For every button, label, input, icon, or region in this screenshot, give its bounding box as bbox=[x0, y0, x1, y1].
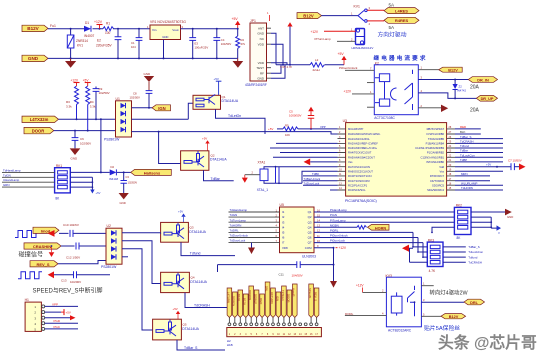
wire U2 out to Q4 bbox=[122, 241, 161, 284]
svg-text:TdBar_S: TdBar_S bbox=[184, 346, 198, 350]
capacitor E3 bbox=[189, 29, 208, 59]
capacitor C8 bbox=[130, 91, 153, 108]
svg-text:RC2/P1A/CCP1: RC2/P1A/CCP1 bbox=[348, 183, 368, 187]
svg-text:I2: I2 bbox=[282, 215, 285, 219]
wire Q4 output TdCRASH bbox=[185, 293, 231, 308]
svg-text:R3: R3 bbox=[66, 100, 70, 104]
svg-text:ACTURN: ACTURN bbox=[270, 292, 274, 304]
svg-text:XTAL_1: XTAL_1 bbox=[257, 188, 269, 192]
wire H1 pin1 VPP bbox=[45, 302, 78, 306]
wire uln out4 net MGBN bbox=[314, 226, 357, 228]
svg-text:47k: 47k bbox=[241, 42, 246, 46]
svg-text:SPeedS: SPeedS bbox=[308, 288, 312, 298]
wire coil pin2 bbox=[337, 40, 356, 42]
svg-text:IN4007: IN4007 bbox=[84, 34, 95, 38]
port R4RES bbox=[384, 17, 419, 23]
wire port stub bbox=[277, 318, 279, 323]
gnd arrow SPEED bbox=[48, 271, 54, 278]
gnd arrow Vss pin8 bbox=[304, 159, 338, 166]
svg-text:XTA1: XTA1 bbox=[258, 161, 266, 165]
resistor network RK2 bbox=[454, 204, 471, 241]
wire uln in2 bbox=[229, 216, 280, 218]
svg-text:IGN: IGN bbox=[158, 106, 165, 111]
svg-text:10K: 10K bbox=[285, 133, 290, 137]
port L4TURN (vertical) bbox=[226, 288, 231, 318]
port Imod bbox=[33, 227, 59, 233]
svg-text:PiDoorUnlock: PiDoorUnlock bbox=[330, 234, 348, 238]
svg-text:RA4/T0CKI/C1OUT: RA4/T0CKI/C1OUT bbox=[348, 151, 372, 155]
power +12V bbox=[336, 246, 347, 250]
svg-text:+12V: +12V bbox=[311, 30, 319, 34]
capacitor C7 bbox=[508, 159, 522, 171]
svg-text:H1B: H1B bbox=[227, 343, 233, 347]
wire relay common bbox=[322, 15, 359, 17]
svg-text:ZNR314: ZNR314 bbox=[76, 39, 88, 43]
svg-text:SDA/SDI/RC4: SDA/SDI/RC4 bbox=[427, 188, 444, 192]
capacitor C12 bbox=[66, 243, 80, 260]
svg-text:CRASHIN: CRASHIN bbox=[33, 244, 51, 249]
wire rk1 row1 bbox=[2, 171, 55, 173]
inductor L2 bbox=[310, 58, 324, 72]
wire opto out DOOR to chip bbox=[132, 132, 338, 134]
wire U2 out to Q5 bbox=[122, 249, 153, 330]
capacitor E2 bbox=[96, 29, 121, 59]
svg-text:TdLockCon: TdLockCon bbox=[460, 154, 475, 158]
resistor R5 mclr bbox=[277, 124, 338, 137]
ground bbox=[65, 58, 76, 67]
svg-text:100uF/25V: 100uF/25V bbox=[195, 45, 209, 49]
svg-text:PiHandLamp: PiHandLamp bbox=[330, 208, 347, 212]
svg-text:B12V: B12V bbox=[448, 69, 458, 73]
net MRN bbox=[455, 172, 490, 176]
svg-text:TdCRASH: TdCRASH bbox=[468, 260, 482, 264]
svg-text:Fu1: Fu1 bbox=[50, 24, 56, 28]
wire to Hallsens bbox=[117, 171, 131, 173]
optocoupler U1 bbox=[104, 97, 132, 142]
svg-text:WLURLAMP: WLURLAMP bbox=[461, 181, 477, 185]
pin stubs JP1 bbox=[267, 28, 272, 78]
wire port stub bbox=[316, 318, 318, 323]
svg-text:C11: C11 bbox=[279, 272, 285, 276]
wire GND rail bbox=[48, 57, 238, 59]
svg-text:GND: GND bbox=[162, 35, 168, 39]
svg-text:DR_UP: DR_UP bbox=[481, 97, 494, 101]
wire H1 pin4 PGD bbox=[45, 319, 78, 323]
diode D1 bbox=[84, 21, 95, 38]
svg-text:H1: H1 bbox=[25, 298, 29, 302]
svg-text:B12V: B12V bbox=[303, 13, 314, 18]
port CRASHIN bbox=[24, 243, 61, 249]
wire H1 pin5 PGC bbox=[45, 325, 78, 329]
svg-text:102/50V: 102/50V bbox=[130, 96, 141, 100]
wire uln in6 bbox=[229, 237, 280, 239]
connector H2 body bbox=[227, 328, 322, 337]
net TdBar_S bbox=[443, 246, 466, 248]
svg-text:VDD: VDD bbox=[258, 42, 265, 46]
svg-text:B12V: B12V bbox=[243, 298, 247, 305]
wire uln in5 bbox=[229, 231, 280, 233]
power +12V K2 bbox=[344, 90, 375, 94]
svg-text:C10 102/6V: C10 102/6V bbox=[63, 223, 79, 227]
svg-text:D1: D1 bbox=[85, 21, 89, 25]
svg-text:HORN: HORN bbox=[375, 226, 386, 230]
wire uln in7 bbox=[229, 242, 280, 244]
svg-text:U5: U5 bbox=[280, 203, 284, 207]
svg-text:IN4742: IN4742 bbox=[457, 89, 466, 93]
svg-text:DTA114UA: DTA114UA bbox=[190, 280, 207, 284]
capacitor C11 bbox=[279, 261, 303, 277]
svg-text:I5: I5 bbox=[282, 231, 285, 235]
net Tdfund bbox=[455, 147, 503, 149]
svg-text:REV_S: REV_S bbox=[36, 262, 49, 267]
square wave SPEED bbox=[18, 272, 42, 279]
ground arrow mid bbox=[248, 243, 255, 254]
net TdHORN bbox=[455, 186, 503, 190]
svg-text:Q5: Q5 bbox=[308, 231, 312, 235]
power +5V Q5 bbox=[173, 307, 181, 319]
svg-text:Hallsens: Hallsens bbox=[144, 170, 161, 175]
svg-text:DTA114UA: DTA114UA bbox=[189, 230, 206, 234]
svg-text:Vout: Vout bbox=[172, 28, 178, 32]
svg-text:+5V: +5V bbox=[66, 311, 71, 315]
net TdBar_S bbox=[455, 138, 503, 140]
capacitor C4 bbox=[213, 29, 231, 59]
svg-text:I7: I7 bbox=[282, 241, 285, 245]
svg-text:C12IN2-/PGM/AN9/RB3: C12IN2-/PGM/AN9/RB3 bbox=[415, 146, 444, 150]
svg-text:INT/AN12/RB0: INT/AN12/RB0 bbox=[426, 160, 444, 164]
relay KV3 coil bbox=[391, 292, 402, 315]
svg-text:TdCRASH: TdCRASH bbox=[460, 140, 474, 144]
svg-text:PiTurnLamp: PiTurnLamp bbox=[315, 37, 332, 41]
svg-text:+12V: +12V bbox=[339, 246, 347, 250]
svg-text:TdBK: TdBK bbox=[312, 172, 319, 176]
capacitor C13 bbox=[61, 271, 81, 284]
svg-text:RK2: RK2 bbox=[456, 204, 462, 208]
wire KV3 pin5 B12V bbox=[421, 315, 441, 317]
svg-text:IN4148: IN4148 bbox=[109, 177, 118, 181]
varistor KV1 bbox=[67, 29, 88, 59]
svg-text:20A: 20A bbox=[470, 108, 480, 114]
wire uln out3 net PiTurnLamp bbox=[314, 221, 454, 223]
svg-text:3.6V 4.7F: 3.6V 4.7F bbox=[280, 65, 292, 69]
svg-text:Q4: Q4 bbox=[308, 225, 312, 229]
port B12V bbox=[297, 13, 322, 19]
port TdTELm (vertical) bbox=[281, 286, 286, 318]
resistor R6 bbox=[357, 226, 367, 230]
port IGN bbox=[152, 105, 171, 111]
svg-text:+5V: +5V bbox=[338, 52, 345, 56]
wire port stub bbox=[250, 318, 252, 323]
svg-text:PGD: PGD bbox=[54, 319, 61, 323]
svg-text:102/50V: 102/50V bbox=[80, 142, 91, 146]
svg-text:C12IN3-/AN10/RB1: C12IN3-/AN10/RB1 bbox=[421, 156, 445, 160]
wire rk2 out rows bbox=[471, 212, 505, 228]
port SPeedS (vertical) bbox=[308, 284, 313, 318]
svg-text:RC0/T1OSO/T1CKI: RC0/T1OSO/T1CKI bbox=[348, 174, 372, 178]
wire port stub bbox=[294, 318, 296, 323]
wire U2 out stub bbox=[122, 256, 128, 258]
svg-text:VPP: VPP bbox=[320, 125, 326, 129]
wire CRASHIN row bbox=[61, 245, 106, 247]
svg-text:RK1: RK1 bbox=[56, 164, 62, 168]
svg-text:U1: U1 bbox=[116, 97, 120, 101]
wire K2 pin2 gnd bbox=[418, 107, 441, 109]
svg-text:PS2801W: PS2801W bbox=[101, 265, 117, 269]
svg-text:GND: GND bbox=[120, 201, 126, 205]
optocoupler U2 bbox=[101, 224, 122, 269]
resistor network RK1 bbox=[55, 164, 71, 201]
svg-text:方向灯驱动: 方向灯驱动 bbox=[378, 31, 407, 39]
power +12V bbox=[71, 79, 80, 87]
wire H1 pin3 gnd bbox=[45, 315, 76, 320]
svg-text:RF: RF bbox=[260, 71, 264, 75]
svg-text:TX0AN1/RB5: TX0AN1/RB5 bbox=[428, 137, 445, 141]
wire uln out1 net PiHandLamp bbox=[314, 211, 454, 213]
wire uln in4 bbox=[229, 226, 280, 228]
svg-text:RED: RED bbox=[460, 125, 466, 129]
svg-text:V: V bbox=[498, 231, 500, 235]
crystal XTAL_1 bbox=[257, 161, 338, 192]
svg-text:Q2: Q2 bbox=[308, 215, 312, 219]
resistor R4 bbox=[86, 86, 96, 131]
svg-text:贴片5A保险丝: 贴片5A保险丝 bbox=[424, 324, 460, 332]
wire rk2 row4 feed bbox=[432, 227, 454, 232]
svg-text:U2: U2 bbox=[107, 224, 111, 228]
ground arrow PGND bbox=[505, 209, 513, 219]
svg-text:C7 10/50V: C7 10/50V bbox=[508, 159, 522, 163]
wire uln out7 net PiDoorLock bbox=[314, 243, 423, 258]
wire H1 pin2 +5V bbox=[45, 309, 71, 315]
svg-text:TdDoorLock: TdDoorLock bbox=[304, 181, 320, 185]
svg-text:KV1: KV1 bbox=[77, 44, 83, 48]
diode D2 bbox=[109, 165, 118, 181]
svg-text:TdBar: TdBar bbox=[460, 149, 468, 153]
svg-text:U3: U3 bbox=[343, 119, 347, 123]
svg-text:+5V: +5V bbox=[178, 210, 183, 214]
net TdBK bbox=[303, 172, 338, 176]
wire Q5 output TdBar_S bbox=[177, 340, 225, 350]
svg-text:MRN: MRN bbox=[461, 172, 468, 176]
relay KV1 contacts bbox=[358, 6, 371, 26]
wire 5V rail bbox=[181, 28, 238, 30]
port B12V bbox=[22, 25, 48, 31]
svg-text:TdTurnLamp: TdTurnLamp bbox=[230, 218, 247, 222]
ground bbox=[70, 148, 81, 160]
svg-text:DOOR: DOOR bbox=[32, 129, 45, 134]
svg-text:+12V: +12V bbox=[94, 20, 103, 24]
svg-text:PiGN: PiGN bbox=[330, 213, 337, 217]
svg-text:+12V: +12V bbox=[356, 284, 364, 288]
svg-text:C13: C13 bbox=[61, 279, 67, 283]
wire pin17 bbox=[455, 180, 490, 182]
gnd arrow bbox=[49, 246, 55, 257]
svg-text:+12V: +12V bbox=[71, 79, 79, 83]
svg-text:Q3: Q3 bbox=[308, 220, 312, 224]
wire uln out5 net PiDRL bbox=[314, 232, 413, 247]
port HORN bbox=[368, 225, 390, 231]
wire VR1 gnd pin bbox=[163, 40, 165, 59]
svg-text:+5V: +5V bbox=[96, 191, 101, 195]
capacitor C3 bbox=[121, 172, 138, 193]
port L4TX32m bbox=[22, 116, 59, 122]
net TdLockCon bbox=[455, 156, 503, 158]
svg-text:PiDoorLock: PiDoorLock bbox=[330, 239, 345, 243]
svg-text:MGBN: MGBN bbox=[330, 223, 339, 227]
port DGD (vertical) bbox=[259, 294, 264, 318]
svg-text:TdDoorLock: TdDoorLock bbox=[230, 239, 246, 243]
port DRL bbox=[464, 299, 485, 305]
svg-text:DORUP: DORUP bbox=[254, 294, 258, 304]
net TdBar bbox=[455, 152, 503, 154]
svg-text:VPP: VPP bbox=[52, 302, 58, 306]
svg-text:VD8: VD8 bbox=[282, 246, 288, 250]
svg-text:433/RF2401RF: 433/RF2401RF bbox=[245, 83, 267, 87]
pin stubs U3 left bbox=[338, 129, 346, 190]
svg-text:BLK: BLK bbox=[460, 130, 466, 134]
svg-text:TdGN: TdGN bbox=[230, 213, 238, 217]
svg-text:DT/RX/RC7: DT/RX/RC7 bbox=[430, 174, 445, 178]
svg-text:Vss: Vss bbox=[348, 160, 353, 164]
gnd over C8 bbox=[144, 72, 155, 91]
svg-text:5A: 5A bbox=[389, 25, 396, 30]
wire opto out to Q1 bbox=[132, 103, 194, 119]
svg-text:TdDRL: TdDRL bbox=[230, 229, 240, 233]
ground bbox=[233, 58, 244, 67]
svg-text:1000/50V: 1000/50V bbox=[289, 114, 301, 118]
wire K2 stub bbox=[367, 82, 374, 84]
relay KV3 contacts bbox=[408, 286, 416, 317]
net TdDoorLock bbox=[303, 181, 338, 185]
port Hallsens bbox=[131, 169, 172, 175]
wire rk1 row4 bbox=[2, 186, 55, 188]
port DORUP (vertical) bbox=[254, 290, 259, 318]
svg-text:PGC: PGC bbox=[54, 325, 61, 329]
wire Vdd pin20 bbox=[455, 166, 511, 168]
diode D4 bbox=[453, 80, 467, 99]
svg-text:100: 100 bbox=[105, 31, 111, 35]
transistor Q4 bbox=[161, 272, 208, 292]
wire uln out2 net PiGN bbox=[314, 216, 454, 218]
wire rk1 row2 bbox=[2, 176, 55, 178]
svg-text:L4RES: L4RES bbox=[395, 8, 408, 13]
port DOREN (vertical) bbox=[232, 292, 238, 318]
svg-text:SPEED与REV_S中断引脚: SPEED与REV_S中断引脚 bbox=[33, 287, 103, 295]
svg-text:TdHORN: TdHORN bbox=[230, 223, 242, 227]
wire SPEED row bbox=[54, 274, 110, 276]
svg-text:C12 1/50V: C12 1/50V bbox=[66, 255, 80, 259]
net TdBarUnlock bbox=[303, 177, 338, 181]
ground arrow bbox=[441, 105, 448, 112]
svg-text:RA5/AN4/SS#/C2OUT: RA5/AN4/SS#/C2OUT bbox=[348, 156, 375, 160]
svg-text:ICSPCLK/RB6: ICSPCLK/RB6 bbox=[427, 132, 445, 136]
svg-text:DTA114UA: DTA114UA bbox=[182, 327, 199, 331]
svg-text:RA6/OSC2/CLKOUT: RA6/OSC2/CLKOUT bbox=[348, 170, 373, 174]
svg-text:RA3/AN3/VREF+/C1IN+: RA3/AN3/VREF+/C1IN+ bbox=[348, 146, 378, 150]
svg-text:104/50V: 104/50V bbox=[292, 274, 303, 278]
power +5V bbox=[83, 79, 91, 87]
svg-text:KV1: KV1 bbox=[354, 4, 361, 8]
wire 12V rail bbox=[48, 28, 150, 30]
wire port stub bbox=[283, 318, 285, 323]
wire K2 stub2 bbox=[367, 106, 374, 108]
svg-text:R5: R5 bbox=[285, 124, 289, 128]
svg-text:HandP: HandP bbox=[292, 288, 296, 297]
wire port stub bbox=[239, 318, 241, 323]
connector JP1 bbox=[245, 19, 267, 87]
power +3.6V arrow bbox=[287, 22, 292, 65]
port ACTURN (vertical) bbox=[270, 288, 275, 318]
ground bbox=[119, 193, 129, 205]
capacitor C9 bbox=[93, 87, 110, 120]
wire row14 stub bbox=[330, 189, 338, 191]
wire crystal gnd pin2 bbox=[245, 174, 260, 176]
svg-text:TdBar_S: TdBar_S bbox=[468, 245, 479, 249]
svg-text:+5V: +5V bbox=[232, 17, 239, 21]
svg-text:REV_S: REV_S bbox=[314, 292, 318, 301]
svg-text:102/50V: 102/50V bbox=[99, 91, 110, 95]
relay KV3 body bbox=[386, 277, 421, 327]
svg-text:ULN2003: ULN2003 bbox=[302, 255, 316, 259]
port DR_UP bbox=[476, 96, 497, 102]
svg-text:SDO/RC5: SDO/RC5 bbox=[432, 183, 444, 187]
svg-text:+5V: +5V bbox=[268, 127, 273, 131]
wire Imod row bbox=[59, 232, 106, 234]
wire contact outputs (red) bbox=[367, 10, 384, 21]
svg-text:+5V: +5V bbox=[486, 163, 491, 167]
transistor Q5 bbox=[153, 319, 200, 340]
IC U3 bbox=[343, 119, 447, 203]
svg-text:GND: GND bbox=[28, 56, 39, 61]
power +12V KV3 bbox=[356, 284, 386, 293]
svg-text:+12V: +12V bbox=[344, 90, 352, 94]
svg-text:Q6: Q6 bbox=[308, 236, 312, 240]
svg-text:MCLR#/VPP: MCLR#/VPP bbox=[348, 127, 363, 131]
wire DOOR row bbox=[54, 130, 116, 132]
ground arrow under C11 net bbox=[330, 265, 337, 288]
connector H1 bbox=[25, 298, 42, 331]
svg-text:DOREN: DOREN bbox=[232, 296, 236, 306]
gnd arrow right bbox=[514, 164, 525, 171]
svg-text:Q7: Q7 bbox=[308, 241, 312, 245]
svg-text:L4TURN: L4TURN bbox=[226, 292, 230, 303]
svg-text:L2: L2 bbox=[315, 58, 319, 62]
svg-text:GND: GND bbox=[257, 76, 265, 80]
power +5V blue small bbox=[497, 225, 502, 234]
pin stubs U3 right bbox=[447, 129, 455, 190]
svg-text:D2: D2 bbox=[111, 165, 115, 169]
wire to +5V bbox=[325, 64, 345, 66]
svg-text:DRL: DRL bbox=[470, 301, 478, 305]
wire L4TX32m row bbox=[59, 118, 116, 120]
svg-text:Vdd: Vdd bbox=[439, 165, 444, 169]
port GND bbox=[22, 55, 48, 61]
svg-text:C3: C3 bbox=[126, 175, 130, 179]
svg-text:+5V: +5V bbox=[214, 77, 219, 81]
transistor Q1 bbox=[193, 95, 239, 110]
svg-text:TEST: TEST bbox=[256, 66, 264, 70]
svg-text:GND: GND bbox=[144, 72, 152, 76]
svg-text:5A: 5A bbox=[389, 3, 396, 8]
wire port stub bbox=[288, 318, 290, 323]
svg-text:PiDRL: PiDRL bbox=[330, 229, 339, 233]
svg-text:Vin: Vin bbox=[152, 28, 157, 32]
svg-text:+5V: +5V bbox=[173, 307, 178, 311]
square wave Imod bbox=[15, 231, 39, 238]
net Tdfund bbox=[443, 256, 466, 258]
svg-text:TdBP: TdBP bbox=[460, 158, 467, 162]
svg-text:PiDoorUnlock: PiDoorUnlock bbox=[339, 66, 358, 70]
svg-text:R4: R4 bbox=[90, 100, 94, 104]
